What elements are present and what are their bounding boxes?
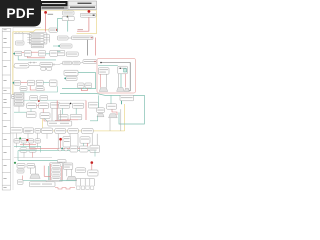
relay J4 label box (62, 11, 74, 15)
connector trapezoid A1 (99, 88, 108, 92)
wire red wavy ground run (55, 188, 75, 189)
wire gray drops FM (57, 109, 60, 121)
pill pair E5 (75, 168, 85, 173)
wire red link row4 (20, 144, 36, 146)
sensor box E2 (27, 163, 35, 168)
wire yellow row branch (13, 30, 49, 32)
component M2 (57, 50, 65, 55)
wire teal drop A2 (120, 74, 122, 88)
schematic subtitle bar (gray) (41, 6, 68, 9)
wire teal long return (18, 160, 58, 162)
page top edge line (13, 26, 41, 28)
wire gray drops N1 (110, 109, 121, 131)
pill row relay RC (35, 128, 40, 133)
title block (right) (68, 1, 97, 10)
relay box R2 (57, 36, 68, 40)
switch S3 (38, 51, 45, 56)
pill row relay RD (41, 128, 53, 134)
fuse box F1 (yellow feed) (49, 28, 58, 32)
wire drop to return (17, 151, 19, 161)
module P2a (30, 96, 38, 101)
wire drops E4 (67, 169, 72, 176)
wire yellow stub 2 (13, 82, 16, 84)
wire yellow right column (124, 104, 126, 131)
wire teal return bus (18, 56, 56, 60)
wire teal drops L4 L5 (62, 108, 76, 114)
wire teal elbow x44 (44, 118, 47, 121)
module D2 (80, 137, 90, 143)
wire teal link (46, 53, 50, 55)
wire yellow bottom segment (77, 33, 97, 35)
green node row4 (19, 137, 21, 139)
row2 switch S7 (36, 80, 43, 85)
wire link to pills (59, 63, 84, 65)
wire yellow left rail (12, 32, 14, 97)
wire yellow elbow (42, 119, 44, 131)
row4 box 4 (35, 139, 40, 143)
wire red drop E row (43, 166, 45, 177)
harness box H2 (80, 146, 88, 152)
component K1 below fuse block (31, 45, 44, 48)
trapezoid N1 (109, 114, 118, 118)
power node 30 (red dot) (44, 11, 47, 14)
relay pill pair (63, 61, 81, 65)
switch S10 (40, 113, 50, 119)
row2 sub box 2 (36, 87, 44, 91)
junction label stack (14, 92, 24, 106)
connector B1 lower (64, 76, 77, 80)
lamp L5 pill (72, 103, 83, 108)
wire link R2-R3 (68, 37, 72, 39)
relay box R3 (72, 36, 93, 40)
harness box H1 (70, 146, 78, 152)
page background (0, 0, 149, 198)
pill row relay RE (55, 128, 66, 133)
wire red branch down (95, 38, 97, 56)
wire gray drops A1 (101, 74, 107, 87)
wire teal elbow right row3 (90, 116, 98, 121)
switch S4 (50, 50, 58, 56)
power node 15 (red dot) (88, 10, 91, 13)
relay J4 contact box (62, 16, 74, 21)
wire teal drop D2 (82, 143, 84, 149)
pump module PM (97, 108, 105, 113)
wire red drop D2 (87, 143, 89, 149)
row4 box 1 (14, 139, 20, 143)
module E0 (57, 160, 66, 166)
wire teal main bus right loop (60, 93, 144, 124)
wire red drop RE (60, 140, 62, 148)
switch S1 (13, 51, 21, 56)
wire red feed FM (62, 119, 78, 121)
row4 box 2 (21, 139, 27, 143)
flat module FM (48, 121, 72, 126)
row5 box 1 (20, 148, 27, 152)
wire teal bus row4 (14, 145, 41, 147)
wire red link row2 (21, 82, 28, 84)
module B1 (64, 70, 78, 75)
component K2 left (15, 41, 24, 45)
connector trapezoid A3 (125, 88, 130, 91)
pill row relay RB (24, 128, 34, 133)
pill row relay RG (82, 128, 94, 133)
wire teal drop to N1 (110, 95, 112, 103)
wire red drop A2 (124, 74, 126, 88)
wire red rail ladder (50, 164, 52, 181)
label red wire (78, 28, 84, 31)
wire teal stub row3 (14, 111, 26, 113)
row2 switch S5 (13, 81, 21, 86)
ground splice trapezoid GT2 (67, 176, 77, 180)
wire teal link row2 (43, 81, 49, 83)
wire red rail ladder right (61, 166, 63, 181)
wire red bus row2 (30, 86, 45, 90)
wire teal branch (58, 19, 63, 32)
row2 sub box 1 (20, 87, 27, 91)
inline connector diamond 1 (58, 148, 63, 151)
page left frame line (12, 27, 14, 190)
gearbox module GB (120, 95, 134, 101)
wire teal link Z (60, 180, 76, 182)
wire red drop from node 30 (45, 14, 47, 32)
row2 switch S6 (27, 80, 34, 85)
pill row relay RA (10, 128, 22, 133)
module E6 (88, 170, 98, 176)
lamp L4 pill (59, 103, 72, 109)
wire drops row4 (17, 143, 41, 152)
wire teal harness run (18, 150, 95, 152)
wire dark loop in pink box (100, 62, 130, 91)
component C1 pair (78, 83, 92, 88)
wire red drop L2 (42, 109, 44, 113)
fuse holder block SB (27, 33, 47, 44)
wire link P1 to U1 (29, 65, 40, 67)
module A1 in pink box (98, 68, 109, 74)
connector ladder CL2 (76, 179, 94, 190)
ignition switch box (80, 13, 96, 17)
control unit U1 (40, 62, 52, 66)
ground splice trapezoid GT1 (30, 174, 40, 178)
wire red rail left of L4 (56, 101, 58, 121)
switch S2 (24, 51, 38, 57)
wire teal loop right (62, 73, 96, 89)
wire yellow long bottom run (43, 130, 125, 132)
red node row4 (26, 139, 28, 141)
wire teal stub H3 (94, 151, 96, 157)
green node G1 (14, 162, 16, 164)
wire red bottom link (44, 175, 50, 177)
row4 box 3 (28, 139, 34, 143)
wire red rail right of L5 (85, 101, 87, 121)
wire red under C1 (81, 88, 87, 91)
wire teal bottom bus right (61, 180, 76, 182)
row5 box 2 (29, 148, 36, 152)
wire gray rail down (87, 40, 89, 56)
fuse outputs collector (45, 35, 49, 43)
label battery feed (48, 13, 54, 16)
schematic title bar (black) (41, 1, 68, 6)
wire yellow drop (pillar) (67, 10, 69, 16)
wire feed line with pins (14, 33, 29, 34)
harness box H3 (90, 145, 99, 152)
wire teal rail ladder (47, 166, 49, 181)
switch S9 (26, 112, 36, 118)
wire yellow top border (41, 9, 97, 11)
small box Z1 (17, 180, 23, 185)
wire red elbow S10 (44, 119, 50, 121)
wire gray drop L3 (51, 108, 53, 121)
module D1 (63, 136, 71, 147)
wire yellow stub 1 (13, 66, 16, 68)
wire red harness run (30, 147, 88, 149)
wire teal bottom bus left (20, 180, 48, 182)
lamp L1 (27, 103, 37, 109)
wire red drop E3 (22, 176, 24, 182)
module A2 in pink box (118, 66, 128, 74)
wire teal elbow right (57, 51, 60, 53)
module L6 (88, 102, 98, 108)
splice pins row (28, 62, 37, 63)
wire teal drop to pump (97, 95, 99, 107)
wire gray drop from stack (18, 106, 20, 112)
power node P2 (red) (38, 100, 40, 102)
wire teal bus row2 (20, 86, 57, 92)
long component pill P1 (14, 63, 29, 68)
wire rails from pill row left (17, 133, 48, 139)
wire rails under pills (58, 134, 97, 148)
bus bar box (83, 60, 97, 64)
unit U1 sub boxes (41, 64, 59, 70)
lamp group L3 (50, 102, 60, 108)
row2 switch S8 (49, 80, 57, 86)
inline connector diamond 2 (64, 148, 69, 151)
wire red link (22, 51, 24, 53)
wire gray drop A2 (117, 74, 119, 88)
wire drops row5 (24, 152, 33, 157)
wire teal inside bottom (98, 64, 118, 66)
sensor box E1 (17, 163, 25, 168)
track number column (2, 28, 10, 190)
module Z3 (46, 180, 60, 181)
svg-text:PDF: PDF (6, 6, 34, 21)
wire gray link row5 (14, 157, 52, 159)
module E4 cluster (63, 163, 72, 169)
lamp L2 (39, 103, 49, 109)
module P2b (40, 96, 48, 101)
PDF badge (0, 0, 41, 27)
wire stub K2 (22, 33, 24, 41)
wire red link row3 (55, 119, 70, 121)
lamp L8 (70, 114, 82, 119)
wire teal feeder row (24, 99, 86, 101)
wide module Z2 (29, 182, 55, 187)
lamp L7 (58, 114, 68, 119)
terminal block T1 (11, 95, 16, 99)
wire red link L1-L2 (37, 105, 39, 107)
connector trapezoid A2 (117, 88, 125, 92)
component M3 (66, 52, 78, 56)
junction teal dot (61, 148, 63, 150)
wire yellow right border (96, 10, 98, 33)
power node (red) under RE (59, 138, 62, 141)
module N1 (107, 104, 117, 109)
wire teal drop L1 (30, 109, 32, 112)
wire green drop GB (121, 101, 123, 104)
wire red drop E (91, 164, 93, 170)
component M1 (53, 44, 72, 48)
wire red return (28, 56, 45, 57)
wire red drop then left (77, 17, 89, 31)
trapezoid PM (97, 113, 104, 116)
power node E (red) (91, 161, 94, 164)
connector ladder CL1 (50, 163, 63, 181)
pill row relay RF (68, 128, 79, 133)
sensor box E3 (17, 169, 24, 173)
wire drops E2 (31, 166, 36, 174)
wire red elbow N1 (112, 109, 117, 115)
wire teal drop from relay (67, 21, 69, 32)
subsystem highlight box (pink) (97, 58, 136, 93)
